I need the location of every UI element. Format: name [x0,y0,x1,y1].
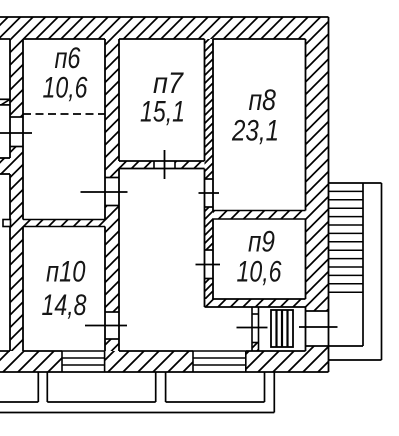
p10 top wall hatch [23,220,105,227]
right wall corner block hatch [306,346,329,372]
top exterior wall bottom edge segments [0,38,306,40]
ventilation shaft box [271,310,293,347]
left exterior wall outer edge segments [9,39,11,351]
svg-text:14,8: 14,8 [42,289,87,322]
bottom wall window 1 [62,351,105,372]
p7 bottom wall top edge [119,160,205,162]
vestibule partition hatched foot [252,343,259,351]
svg-text:п6: п6 [55,42,81,75]
porch step rectangle middle [47,372,155,402]
svg-text:23,1: 23,1 [231,115,279,148]
svg-text:п9: п9 [248,226,275,259]
svg-text:п8: п8 [249,84,277,117]
wall B door to p9 tick [196,264,221,266]
staircase inner boundary [329,183,364,346]
right wall east edge [328,17,330,372]
p7 bottom wall hatch segments [119,161,154,169]
wall A upper door opening caps [105,177,119,179]
svg-text:10,6: 10,6 [43,72,88,105]
exterior wall junction protrusion hatch [0,158,10,174]
protrusion top and bottom edges [0,157,10,159]
bottom wall hatch segment 1 [0,351,62,372]
wall B east edge segments [212,39,214,299]
svg-text:10,6: 10,6 [237,256,282,289]
p7 door opening caps [153,161,155,169]
p7 door tick [164,150,166,179]
p7 bottom wall bottom edge [119,168,205,170]
left exterior wall hatch lower [10,147,23,352]
wall B door to p8 caps [205,178,214,180]
wall A lower door tick [85,325,127,327]
vestibule partition [252,307,259,351]
wall A west edge segments [104,39,106,351]
porch step rectangle left [0,372,38,402]
wall B west edge segments [204,39,206,307]
bottom wall window 2 [193,351,246,372]
porch step rectangle right [166,372,265,402]
wall B door to p8 tick [199,192,220,194]
left exterior wall hatch upper [10,39,23,117]
interior wall A hatch segments [105,39,119,178]
exterior sill stub hatch line [1,99,10,105]
svg-text:15,1: 15,1 [140,96,185,129]
p9 bottom wall hatch [205,299,306,307]
svg-text:п10: п10 [46,256,86,289]
p9 bottom wall bottom edge [205,306,306,308]
bottom wall top edge segments [0,350,306,352]
p9 top wall hatch [213,211,306,220]
dashed division line in room p6 [23,113,105,115]
staircase top edge [329,182,382,184]
wall A lower door opening caps [105,311,119,313]
p10 top wall edges [23,219,105,221]
entrance door opening caps [306,310,329,312]
right exterior wall hatch [306,39,329,311]
exterior sill line 2 [0,104,10,106]
small exterior stub box [3,220,11,227]
p9 bottom wall top edge [213,298,306,300]
top exterior wall top edge [0,16,329,18]
right wall west edge segments [305,39,307,351]
interior wall B hatch segments [205,39,214,179]
entrance door tick [299,326,338,328]
wall B door to p9 caps [205,249,214,251]
porch outer boundary [0,372,274,413]
bottom wall bottom edge [0,371,329,373]
p9 top wall edges [213,210,306,212]
staircase treads [329,191,364,292]
vestibule partition door tick [237,327,268,329]
top exterior wall hatch [0,17,329,39]
wall A east edge segments [118,39,120,351]
wall A upper door tick [81,191,128,193]
window in left exterior wall [10,117,23,147]
bottom wall hatch segment 2 [105,351,193,372]
window sill tick [0,132,32,134]
staircase outer boundary [329,183,382,360]
exterior sill line 1 [0,98,10,100]
bottom wall hatch segment 3 [246,351,306,372]
left exterior wall inner edge segments [22,39,24,351]
